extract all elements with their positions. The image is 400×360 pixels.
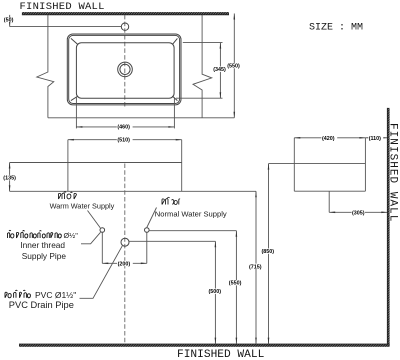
label drain pipe (thai) bbox=[5, 290, 30, 298]
svg-text:FINISHED WALL: FINISHED WALL bbox=[387, 123, 399, 222]
sink outer rim (inner line) bbox=[69, 35, 180, 103]
dimension (50) value bbox=[4, 17, 15, 22]
wall (top, plan view) bbox=[22, 12, 229, 15]
dimension (510) value bbox=[117, 137, 133, 143]
counter left edge with break bbox=[37, 15, 54, 118]
svg-text:(200): (200) bbox=[118, 262, 131, 268]
front view: top line doubling as (510) dimension bbox=[68, 139, 182, 141]
normal supply line to height dimension bbox=[149, 230, 236, 232]
side view: right side bbox=[364, 138, 366, 191]
dimension (200) value bbox=[117, 261, 133, 266]
extension line from faucet hole to (50) dimension bbox=[10, 26, 122, 28]
leader drain pipe bbox=[80, 246, 123, 298]
dimension (550) value bbox=[227, 63, 240, 68]
drain point (front view) bbox=[121, 238, 129, 246]
dimension (345) line bbox=[219, 43, 221, 99]
svg-text:PVC Ø1½": PVC Ø1½" bbox=[35, 290, 76, 300]
svg-text:(550): (550) bbox=[227, 64, 240, 70]
basin corner chamfer BR bbox=[172, 96, 177, 101]
svg-text:(850): (850) bbox=[262, 249, 275, 255]
side view: box top doubling as (420) dimension bbox=[294, 137, 365, 139]
drain (plan) inner bbox=[120, 64, 130, 74]
center line (plan view) bbox=[124, 15, 126, 107]
svg-text:(50): (50) bbox=[4, 17, 14, 23]
side view: counter top line bbox=[269, 163, 366, 165]
side view: left side bbox=[293, 138, 295, 191]
front view: counter top bbox=[10, 162, 182, 164]
drain (plan) outer bbox=[118, 62, 133, 77]
svg-text:(510): (510) bbox=[117, 138, 130, 144]
normal water supply point bbox=[145, 228, 150, 233]
dimension (305) line bbox=[329, 211, 387, 213]
svg-text:(460): (460) bbox=[117, 124, 130, 130]
dimension (135) value bbox=[3, 175, 16, 180]
warm water supply point bbox=[100, 228, 105, 233]
dimension (500) drain height bbox=[214, 241, 216, 343]
dimension (135) line (counter thickness) bbox=[9, 163, 11, 192]
extension line basin bottom to (345) bbox=[176, 97, 223, 99]
faucet hole bbox=[121, 23, 128, 30]
dimension (460) value bbox=[117, 124, 133, 130]
svg-text:(345): (345) bbox=[213, 67, 226, 73]
svg-text:(135): (135) bbox=[3, 176, 16, 182]
svg-text:(420): (420) bbox=[322, 136, 335, 142]
leader warm supply bbox=[88, 211, 101, 228]
svg-text:FINISHED WALL: FINISHED WALL bbox=[20, 1, 105, 13]
svg-text:Inner thread: Inner thread bbox=[20, 240, 65, 250]
svg-text:Ø½": Ø½" bbox=[64, 231, 79, 240]
normal supply drop line bbox=[146, 232, 148, 263]
leader normal supply bbox=[147, 208, 157, 228]
svg-text:(500): (500) bbox=[209, 289, 222, 295]
counter right edge with break bbox=[193, 15, 212, 118]
dimension (200) line between supplies bbox=[102, 262, 147, 264]
dimension (850) counter top height bbox=[268, 164, 270, 344]
dimension (345) value bbox=[213, 67, 226, 72]
dimension (50) line bbox=[9, 15, 11, 27]
extension line basin top to (345) bbox=[183, 42, 223, 44]
svg-text:Normal Water Supply: Normal Water Supply bbox=[155, 209, 227, 218]
svg-text:FINISHED WALL: FINISHED WALL bbox=[177, 349, 265, 360]
side view: drop line to (305) bbox=[328, 191, 330, 212]
front view: sink right side bbox=[181, 140, 183, 192]
front view: sink left side bbox=[67, 140, 69, 192]
basin corner chamfer TR bbox=[172, 38, 177, 44]
dimension (550) line (plan depth) bbox=[233, 14, 235, 118]
floor line bbox=[19, 344, 390, 347]
svg-text:PVC Drain Pipe: PVC Drain Pipe bbox=[9, 300, 74, 310]
svg-text:(305): (305) bbox=[352, 210, 365, 216]
dimension (460) line bbox=[76, 126, 174, 128]
counter front edge (plan) bbox=[48, 117, 234, 119]
svg-text:Supply Pipe: Supply Pipe bbox=[22, 251, 67, 261]
basin bbox=[76, 43, 174, 98]
sink outer rim (outer line) bbox=[67, 34, 181, 105]
basin corner chamfer BL bbox=[71, 96, 78, 101]
dimension (110) line bbox=[365, 137, 387, 139]
label inner thread supply pipe (thai) bbox=[8, 230, 62, 238]
svg-text:(715): (715) bbox=[249, 264, 262, 270]
dimension (550) supply height bbox=[235, 231, 237, 344]
label warm water supply (thai) bbox=[59, 192, 77, 199]
svg-text:(550): (550) bbox=[229, 281, 242, 287]
extension line (460) right bbox=[173, 98, 175, 128]
svg-text:Warm Water Supply: Warm Water Supply bbox=[50, 201, 115, 210]
leader inner thread bbox=[81, 232, 101, 244]
svg-text:SIZE : MM: SIZE : MM bbox=[309, 23, 363, 34]
center line (front view) bbox=[124, 164, 126, 344]
warm supply drop line bbox=[101, 232, 103, 263]
extension line (460) left bbox=[75, 97, 77, 129]
wall (right, side view) bbox=[387, 108, 389, 347]
label normal water supply (thai) bbox=[162, 197, 180, 204]
side view: bottom bbox=[294, 190, 365, 192]
drain line to height dimension bbox=[129, 240, 215, 242]
svg-text:(110): (110) bbox=[369, 136, 381, 142]
front view: counter bottom, extends to (715) dimension bbox=[10, 190, 256, 192]
basin corner chamfer TL bbox=[71, 38, 78, 44]
dimension (715) counter underside height bbox=[255, 191, 257, 343]
